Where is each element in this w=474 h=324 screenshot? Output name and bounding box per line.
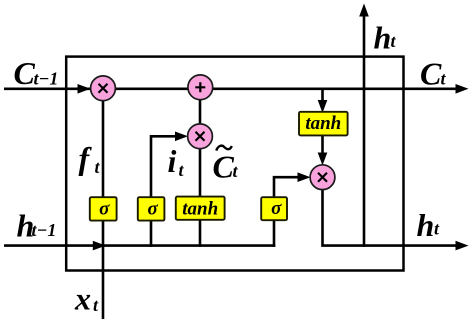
add node (cell state sum) [188,75,213,100]
tanh box (cell state squash) [299,112,348,136]
label f_t [79,140,101,177]
wire: sigma o elbow into multiply node 3 [274,177,300,247]
svg-text:t−1: t−1 [32,220,57,240]
svg-text:t: t [391,31,397,51]
svg-text:C: C [420,55,442,91]
svg-text:tanh: tanh [182,199,218,220]
svg-text:C: C [14,55,36,91]
svg-text:t−1: t−1 [34,69,59,89]
arrowhead: C_{t-1} into multiply node 1 [78,84,91,94]
arrowhead: h_{t-1} mid arrow [93,241,106,251]
svg-text:h: h [417,207,435,243]
arrowhead: C_t output right [456,84,469,94]
svg-text:σ: σ [271,198,282,219]
svg-text:x: x [74,281,91,317]
arrowhead: h_t output right [456,241,469,251]
label x_t [74,281,99,317]
label C~_t (candidate cell state) [213,146,239,185]
label C_{t-1} [14,55,59,91]
svg-text:h: h [374,20,392,56]
wire: sigma i branch up elbow into multiply node 2 [151,136,178,247]
svg-text:t: t [93,295,99,315]
wire: tanh g branch vertical through multiply node 2 to add node [199,89,202,247]
svg-text:t: t [95,157,101,177]
svg-text:f: f [79,140,93,176]
label i_t [168,143,185,180]
wire: h_{t-1} bottom horizontal line to sigma o [4,244,275,247]
label h_t (top output) [374,20,397,56]
arrowhead: into tanh box top [318,100,328,113]
svg-text:C: C [213,149,235,185]
multiply node 1 (forget gate product) [91,76,116,101]
multiply node 3 (output gate product) [310,165,335,190]
wire: x_t vertical line up through sigma f to multiply node 1 [102,89,105,319]
svg-text:t: t [434,219,440,239]
label C_t (output) [420,55,447,91]
arrowhead: tanh into multiply node 3 [318,153,328,166]
gate box sigma o [261,197,287,220]
svg-text:i: i [168,143,177,179]
wire: multiply node 3 down and right, h_t output line [323,177,457,245]
wire: h_t branch up through box top [363,15,366,247]
wire: C_{t-1} to C_t top horizontal line [4,88,456,91]
svg-text:t: t [233,161,239,181]
arrowhead: sigma i into multiply node 2 [175,132,188,142]
multiply node 2 (input gate product) [188,124,213,149]
svg-text:t: t [441,69,447,89]
svg-text:tanh: tanh [305,113,341,134]
wire: tanh box down into multiply node 3 [321,134,324,155]
gate box sigma i [138,197,165,220]
svg-text:σ: σ [99,198,110,219]
label h_{t-1} [17,208,57,244]
wire: branch from C line down into tanh box [321,89,324,103]
gate box tanh g [176,197,225,220]
arrowhead: h_t top output up [359,4,369,17]
label h_t (right output) [417,207,441,243]
svg-text:t: t [179,160,185,180]
arrowhead: sigma o into multiply node 3 [298,172,311,182]
svg-text:σ: σ [147,198,158,219]
gate box sigma f [90,197,117,220]
cell box (LSTM cell boundary) [66,57,403,271]
